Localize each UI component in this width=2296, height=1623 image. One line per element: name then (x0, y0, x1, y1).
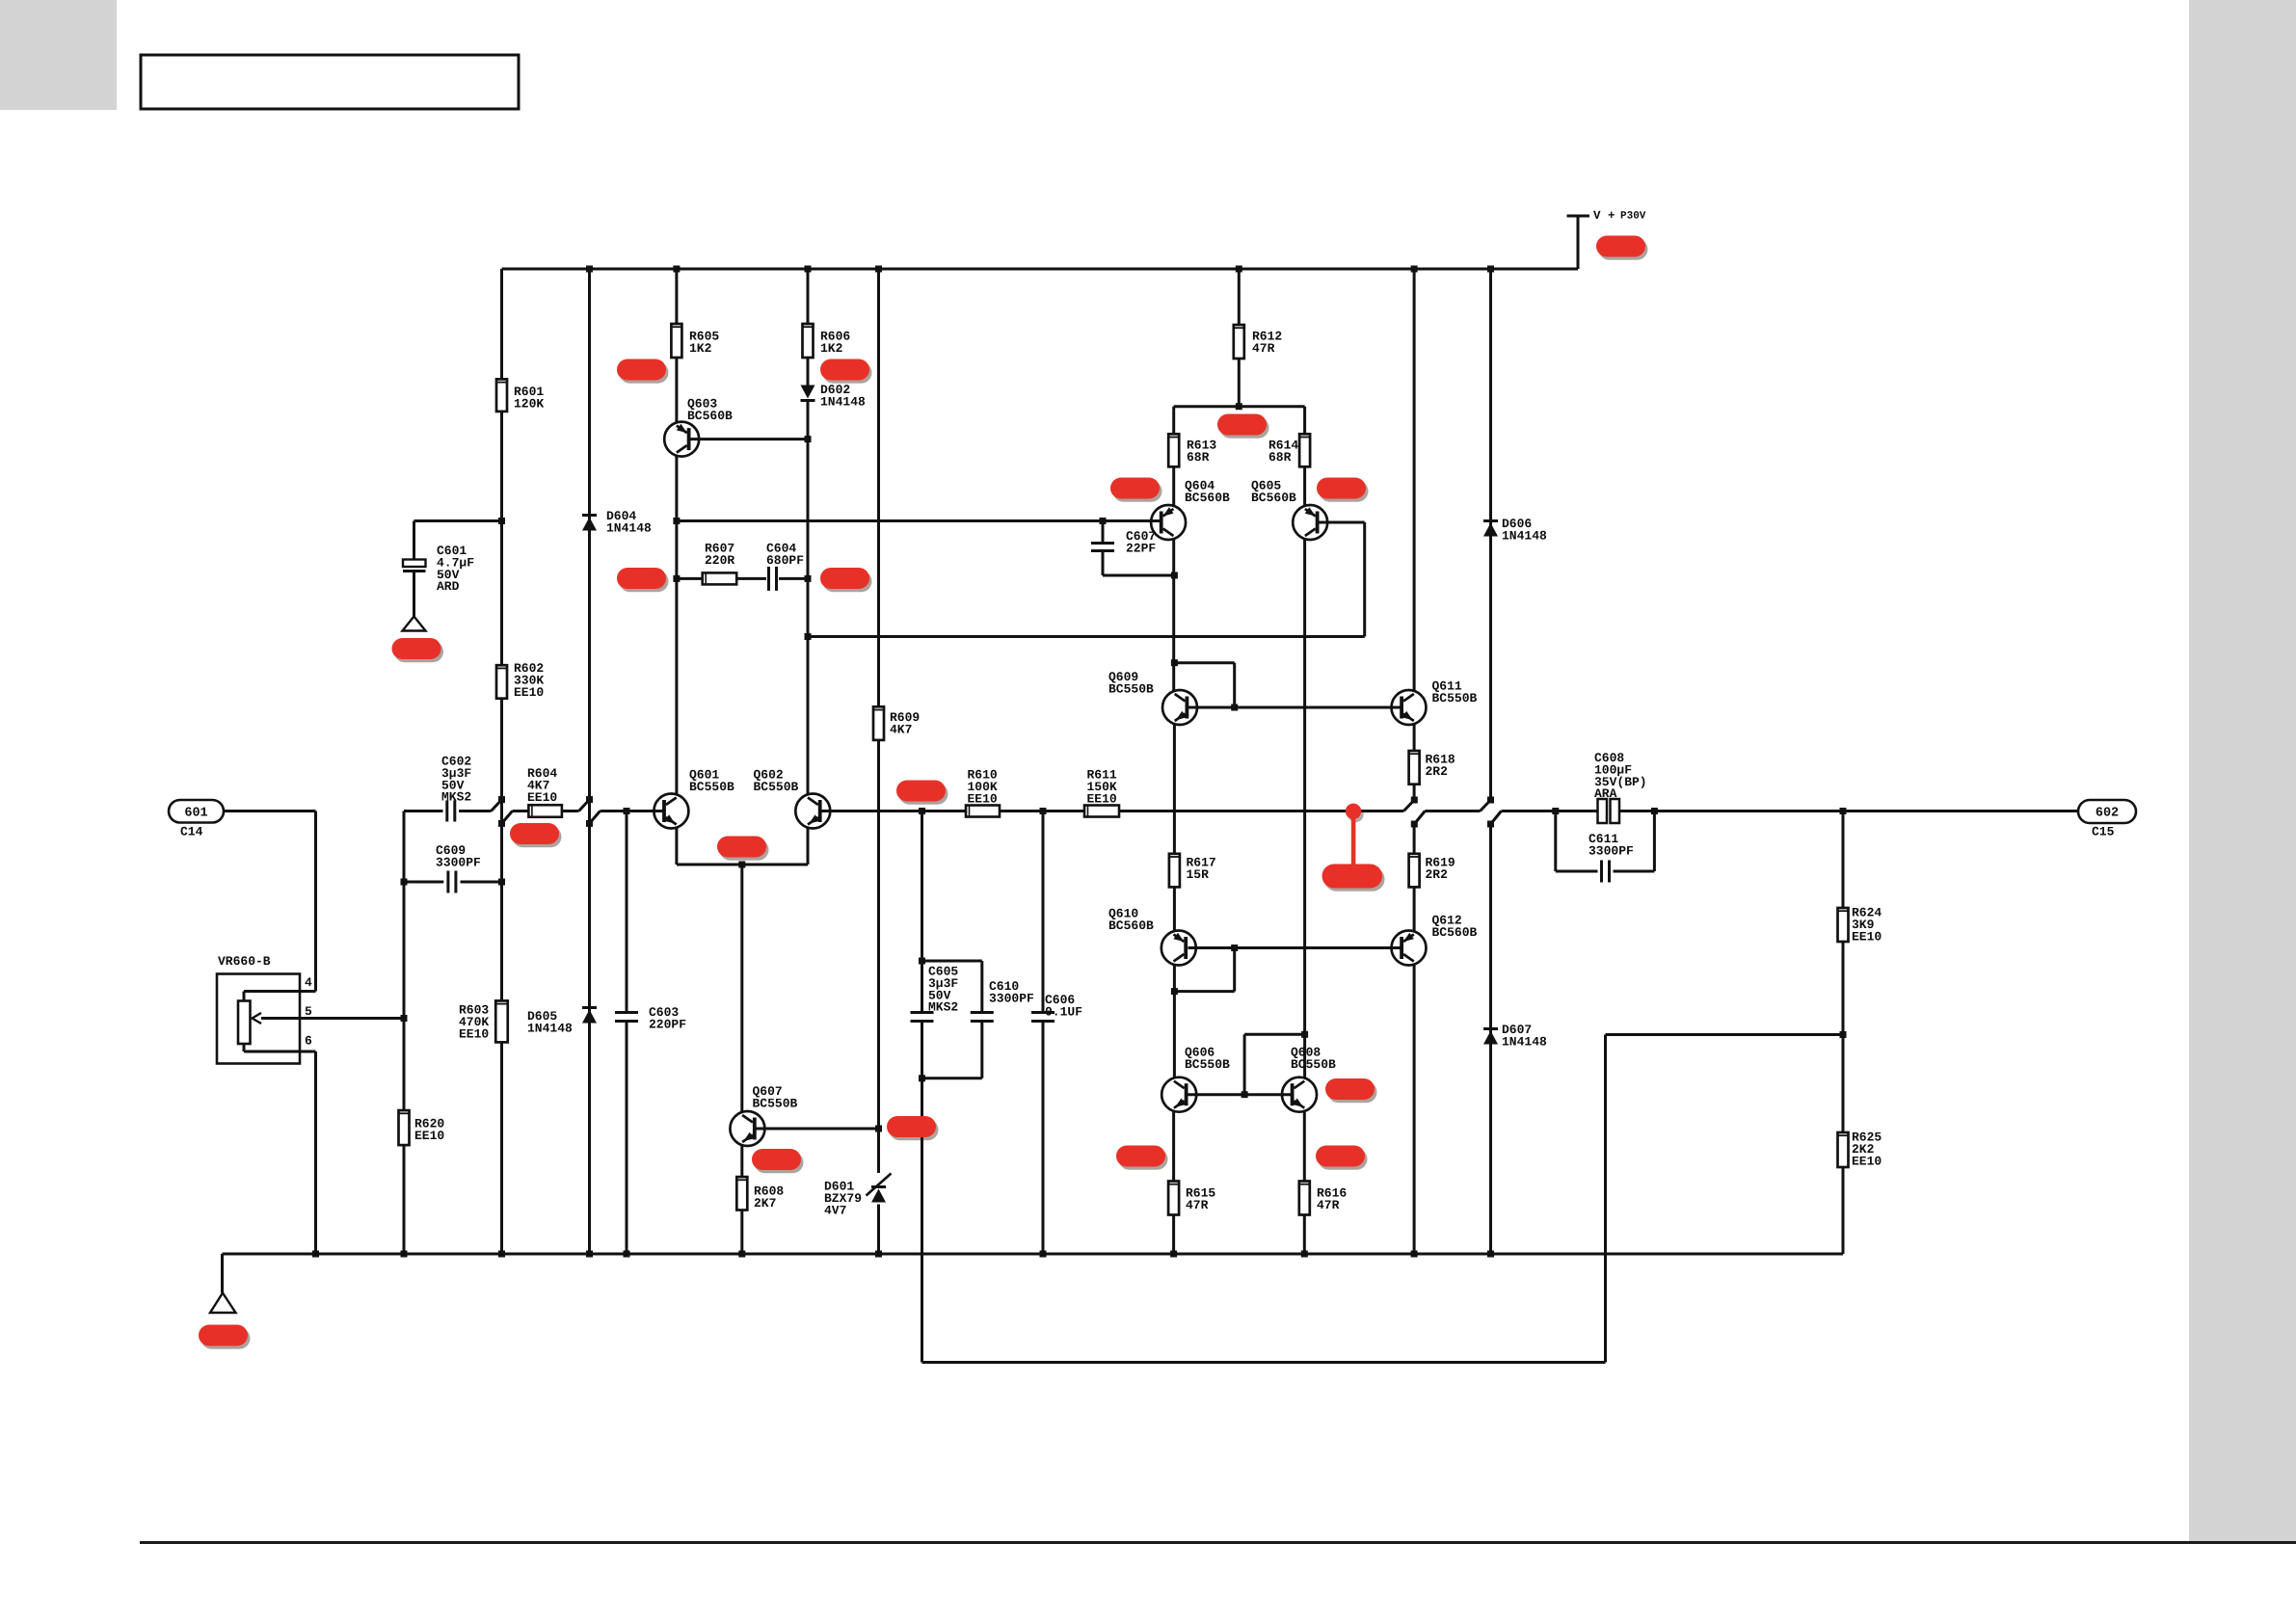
node Q608 collector link (1301, 1031, 1308, 1038)
wire output to 602 (1654, 810, 2078, 812)
svg-text:BC560B: BC560B (1251, 491, 1296, 505)
wire Q609 Q611 base line (1188, 706, 1402, 709)
wire C601 branch (414, 519, 502, 522)
node bus junction (401, 1251, 408, 1258)
ground arrow below C601 (403, 617, 426, 631)
wire R610 to R611 (1000, 810, 1084, 812)
red marker below Q607 (752, 1149, 804, 1173)
wire ground bus (223, 1253, 1844, 1256)
resistor R613 (1168, 434, 1179, 466)
diode D602 (801, 386, 815, 401)
resistor R618 (1409, 751, 1420, 785)
transistor Q603 (664, 422, 699, 457)
terminal 602 (2078, 800, 2136, 823)
red marker right of R616 (1316, 1146, 1368, 1170)
node bus junction (586, 1251, 593, 1258)
svg-text:1K2: 1K2 (689, 341, 712, 356)
svg-text:2R2: 2R2 (1426, 764, 1449, 779)
wire jog at D604 column (579, 800, 590, 811)
diode D606 (1483, 521, 1498, 537)
capacitor C609 line (404, 881, 443, 884)
red marker left of R615 (1116, 1146, 1168, 1170)
transistor Q608 (1282, 1078, 1317, 1112)
red test point marker (1346, 804, 1364, 865)
svg-text:P30V: P30V (1620, 211, 1646, 223)
node base link Q608 (1241, 1091, 1248, 1098)
svg-text:BC550B: BC550B (754, 780, 799, 794)
svg-text:1N4148: 1N4148 (1502, 1034, 1547, 1049)
transistor Q610 (1161, 931, 1196, 966)
svg-text:47R: 47R (1317, 1198, 1340, 1212)
node C603 tap (624, 808, 630, 814)
resistor R601 (496, 379, 507, 412)
svg-text:3300PF: 3300PF (436, 855, 481, 869)
svg-text:47R: 47R (1252, 341, 1275, 356)
resistor R607 (703, 572, 737, 584)
node bus junction (1487, 1251, 1494, 1258)
diode D605 (582, 1008, 597, 1024)
pot resistor element (238, 1001, 251, 1045)
svg-text:EE10: EE10 (1852, 1154, 1882, 1168)
wire Q608 emitter to R616 (1303, 1112, 1306, 1182)
wire Q607 collector (740, 865, 743, 1111)
resistor R602 (496, 665, 507, 699)
node Q603 collector (673, 518, 680, 524)
wire R615 to bus (1172, 1215, 1175, 1255)
svg-text:4V7: 4V7 (824, 1203, 846, 1217)
wire Q604 collector (1172, 539, 1175, 691)
svg-text:ARA: ARA (1594, 786, 1617, 801)
svg-text:V +: V + (1593, 209, 1615, 223)
svg-text:601: 601 (184, 807, 207, 821)
svg-text:2K7: 2K7 (754, 1196, 776, 1211)
wire Q606 Q608 base line (1188, 1093, 1293, 1096)
wire Q605 base loop (1318, 521, 1365, 524)
red marker below Q601 Q602 (717, 837, 769, 861)
node C609 left (401, 879, 408, 886)
transistor Q604 (1151, 505, 1186, 540)
svg-text:C14: C14 (180, 825, 203, 839)
red marker left of R607 (617, 568, 669, 592)
wire Q609 emitter to R617 (1173, 725, 1176, 854)
svg-text:C15: C15 (2092, 825, 2115, 839)
resistor R612 (1234, 325, 1244, 359)
node rail D604 (586, 266, 593, 273)
svg-text:1N4148: 1N4148 (1502, 528, 1547, 543)
wire Q603 base (691, 438, 809, 440)
node bus junction (624, 1251, 630, 1258)
wire Q607 base (756, 1128, 879, 1131)
wire R604 to jog (562, 810, 579, 812)
svg-text:1N4148: 1N4148 (606, 520, 652, 535)
wire to C608 (1502, 810, 1556, 812)
svg-text:0.1UF: 0.1UF (1045, 1004, 1082, 1019)
node rail D606 (1487, 266, 1494, 273)
svg-text:BC560B: BC560B (687, 409, 733, 423)
node rail R605 (673, 266, 680, 273)
potentiometer VR660-B box (217, 974, 300, 1064)
red marker left of R610 (896, 781, 948, 805)
wire jog at Q611 column (1403, 800, 1414, 811)
wire R614 to Q605 (1303, 466, 1306, 506)
wire C602 line (404, 810, 443, 812)
wire C605 column (921, 811, 923, 962)
resistor R614 (1299, 434, 1310, 466)
svg-text:EE10: EE10 (459, 1026, 489, 1041)
svg-text:1N4148: 1N4148 (820, 394, 866, 409)
red marker below R604 (510, 823, 562, 847)
wire Q610 Q612 base line (1188, 946, 1402, 949)
wire R608 to bus (740, 1211, 743, 1255)
svg-text:BC550B: BC550B (1185, 1057, 1230, 1072)
resistor R620 (399, 1110, 410, 1145)
svg-text:220R: 220R (705, 553, 734, 568)
transistor Q609 (1162, 690, 1197, 725)
node rail Q611 (1411, 266, 1418, 273)
wire D604 column (588, 269, 591, 800)
transistor Q602 (795, 794, 830, 829)
node Q610 base link (1231, 945, 1238, 951)
node C606 tap (1040, 808, 1047, 814)
red marker right of C604 (820, 568, 872, 592)
wire C608 right (1619, 810, 1654, 812)
capacitor C606 (1042, 811, 1045, 1012)
capacitor C607 (1102, 521, 1105, 543)
red marker near V+ (1596, 236, 1648, 260)
wire R609 column (877, 269, 880, 706)
wire Q608 base loop up (1243, 1034, 1246, 1094)
red marker below bracket (1217, 414, 1269, 439)
wire Q602 base to R610 (818, 810, 966, 812)
capacitor C604 (769, 567, 777, 591)
svg-text:MKS2: MKS2 (928, 1000, 958, 1015)
node base line (1231, 705, 1238, 711)
node C611 right (1651, 808, 1658, 814)
node bus junction (1040, 1251, 1047, 1258)
node bus junction (1170, 1251, 1177, 1258)
wire R601 column (500, 269, 503, 379)
diode D604 (582, 516, 597, 531)
svg-text:68R: 68R (1268, 450, 1292, 465)
wire Q612 collector (1413, 966, 1416, 1255)
wire to Q601 base (601, 810, 666, 812)
svg-text:220PF: 220PF (649, 1017, 686, 1031)
red marker below ground (199, 1325, 251, 1349)
wire Q611 emitter to R618 (1413, 725, 1416, 752)
wire V+ stem (1577, 216, 1580, 269)
wire Q606 emitter to R615 (1172, 1112, 1175, 1182)
svg-text:1K2: 1K2 (820, 341, 843, 356)
node C604 right (805, 575, 812, 582)
svg-text:1N4148: 1N4148 (527, 1021, 573, 1035)
wire R618 to main (1413, 785, 1416, 800)
wire R624 column (1842, 811, 1845, 909)
node bracket center (1236, 403, 1242, 410)
node emitter bus (738, 862, 745, 868)
wire Q605 collector (1303, 539, 1306, 1078)
wire main to R619 (1413, 824, 1416, 854)
wire R617 to Q610 (1173, 887, 1176, 930)
node rail R609 (875, 266, 882, 273)
node bus junction (312, 1251, 319, 1258)
svg-text:EE10: EE10 (527, 790, 557, 805)
node C605 bottom (919, 1075, 925, 1081)
wire 601 to pot pin4 (224, 810, 316, 812)
wire C610 column (980, 961, 983, 1011)
node bus junction (1301, 1251, 1308, 1258)
node pin5 junction (401, 1015, 408, 1022)
red marker right of Q607 column (887, 1116, 939, 1140)
resistor R610 (966, 806, 1000, 817)
wire bus left drop (221, 1254, 224, 1293)
resistor R615 (1168, 1182, 1179, 1215)
svg-text:BC550B: BC550B (689, 780, 734, 794)
capacitor C608 (1598, 799, 1608, 823)
wire jog to D606 column (1425, 810, 1480, 812)
transistor Q605 (1293, 505, 1327, 540)
resistor R625 (1838, 1132, 1849, 1167)
transistor Q612 (1392, 931, 1427, 966)
wire Q604 base line (677, 519, 1161, 522)
node Q603 base to D602 (805, 436, 812, 442)
svg-text:BC560B: BC560B (1185, 491, 1230, 505)
terminal 601 (169, 800, 224, 823)
wire R612 column (1238, 269, 1241, 325)
red marker right of Q605 (1317, 478, 1369, 502)
wire C611 branch (1554, 811, 1557, 872)
red marker below C601 (392, 638, 444, 662)
transistor Q601 (654, 794, 688, 829)
svg-text:15R: 15R (1187, 867, 1210, 882)
ground arrow bottom left (210, 1293, 236, 1314)
capacitor C601 (403, 560, 426, 568)
node C609 right (498, 879, 505, 886)
capacitor C610 (971, 1013, 994, 1022)
resistor R608 (736, 1177, 747, 1210)
wire Q601 Q602 emitter bus (677, 864, 808, 866)
wire C605 C610 top bus (922, 960, 982, 963)
bottom rule (140, 1541, 2296, 1544)
resistor R604 (528, 805, 562, 817)
wire input riser (403, 811, 406, 1019)
svg-text:EE10: EE10 (968, 791, 998, 806)
resistor R606 (803, 324, 814, 358)
wire Q611 collector (1413, 269, 1416, 691)
wire R607 C604 line (677, 577, 703, 580)
svg-text:22PF: 22PF (1126, 541, 1156, 555)
transistor Q611 (1392, 690, 1427, 725)
V+ terminal (1567, 215, 1590, 218)
node bus junction (1411, 1251, 1418, 1258)
node Q602 collector tap (805, 633, 812, 640)
resistor R616 (1299, 1182, 1310, 1215)
red marker right of R606 (820, 359, 872, 384)
node C605 branch (919, 808, 925, 814)
gray corner block top-left (0, 0, 117, 110)
svg-text:5: 5 (305, 1004, 312, 1019)
node Q607 base (875, 1126, 882, 1132)
svg-text:BC550B: BC550B (753, 1096, 798, 1110)
title box (141, 55, 519, 109)
red marker left of Q604 (1110, 478, 1162, 502)
node C608 left (1552, 808, 1559, 814)
svg-text:3300PF: 3300PF (989, 991, 1034, 1005)
wire feedback to left (1606, 1033, 1844, 1036)
resistor R611 (1084, 806, 1119, 817)
wire R613 to Q604 (1172, 466, 1175, 506)
svg-text:EE10: EE10 (414, 1129, 444, 1143)
wire R605 column (675, 269, 678, 324)
svg-text:BC550B: BC550B (1108, 681, 1154, 696)
diode D607 (1483, 1029, 1498, 1045)
svg-text:4: 4 (305, 975, 312, 990)
svg-text:BC550B: BC550B (1432, 691, 1478, 705)
svg-text:47R: 47R (1186, 1198, 1209, 1212)
svg-text:VR660-B: VR660-B (218, 954, 271, 969)
wire top V+ rail (502, 268, 1579, 271)
resistor R605 (671, 324, 681, 358)
svg-text:2R2: 2R2 (1426, 867, 1449, 882)
resistor R617 (1169, 854, 1180, 888)
svg-text:3300PF: 3300PF (1589, 843, 1634, 858)
wire R613 R614 bracket (1174, 405, 1305, 408)
wire sub bus (922, 1361, 1606, 1364)
wire R619 to Q612 (1413, 887, 1416, 930)
red marker right of Q608 (1325, 1078, 1377, 1103)
svg-text:BC560B: BC560B (1108, 918, 1154, 933)
wire D606 column (1489, 269, 1492, 800)
svg-text:6: 6 (305, 1034, 312, 1049)
transistor Q606 (1161, 1078, 1196, 1112)
svg-text:BC560B: BC560B (1432, 925, 1478, 940)
pot wiper arrow pin5 (261, 1017, 404, 1020)
wire to R604 (513, 810, 529, 812)
node rail R606 (805, 266, 812, 273)
capacitor C605 (911, 1013, 934, 1022)
wire Q607 emitter (740, 1146, 743, 1178)
resistor R609 (873, 706, 884, 740)
wire R606 column (807, 269, 810, 324)
svg-text:680PF: 680PF (766, 553, 804, 568)
transistor Q607 (730, 1111, 764, 1146)
capacitor C602 (447, 801, 455, 822)
node C605 top (919, 958, 925, 965)
red marker left of R605 (617, 359, 669, 384)
resistor R624 (1838, 908, 1849, 942)
svg-text:ARD: ARD (437, 579, 460, 594)
wire R611 to jog (1119, 810, 1403, 812)
wire pot pin4 (243, 992, 246, 1001)
svg-text:EE10: EE10 (1087, 791, 1117, 806)
node rail R612 (1236, 266, 1242, 273)
node R607 tap (673, 575, 680, 582)
node R624 bottom (1840, 1031, 1847, 1038)
svg-text:EE10: EE10 (514, 685, 544, 700)
wire R616 to bus (1303, 1215, 1306, 1255)
wire Q609 diode link (1171, 659, 1178, 666)
zener D601 (871, 1187, 886, 1203)
svg-text:BC550B: BC550B (1291, 1057, 1336, 1072)
wire C603 column (626, 811, 628, 1012)
node C601 tap (498, 518, 505, 524)
node bus junction (498, 1251, 505, 1258)
svg-text:602: 602 (2096, 807, 2119, 821)
wire C605 C610 bottom bus (922, 1077, 982, 1079)
svg-text:68R: 68R (1187, 450, 1210, 465)
node bus junction (875, 1251, 882, 1258)
wire pot pin6 (243, 1044, 246, 1051)
node C607 top (1100, 518, 1107, 524)
resistor R619 (1409, 854, 1420, 888)
resistor R603 (495, 1000, 508, 1042)
node bus junction (738, 1251, 745, 1258)
wire jog at R602 column (492, 800, 502, 811)
svg-text:120K: 120K (514, 396, 544, 411)
wire Q610 diode link (1233, 948, 1236, 992)
node R624 top (1840, 808, 1847, 814)
svg-text:4K7: 4K7 (890, 722, 912, 736)
capacitor C611 (1602, 861, 1610, 883)
svg-text:MKS2: MKS2 (441, 790, 471, 805)
capacitor C603 (615, 1013, 638, 1022)
wire Q610 collector (1173, 966, 1176, 1078)
node C607 bottom to Q604 collector (1171, 572, 1178, 579)
svg-text:EE10: EE10 (1852, 929, 1882, 944)
gray side strip right (2189, 0, 2296, 1541)
